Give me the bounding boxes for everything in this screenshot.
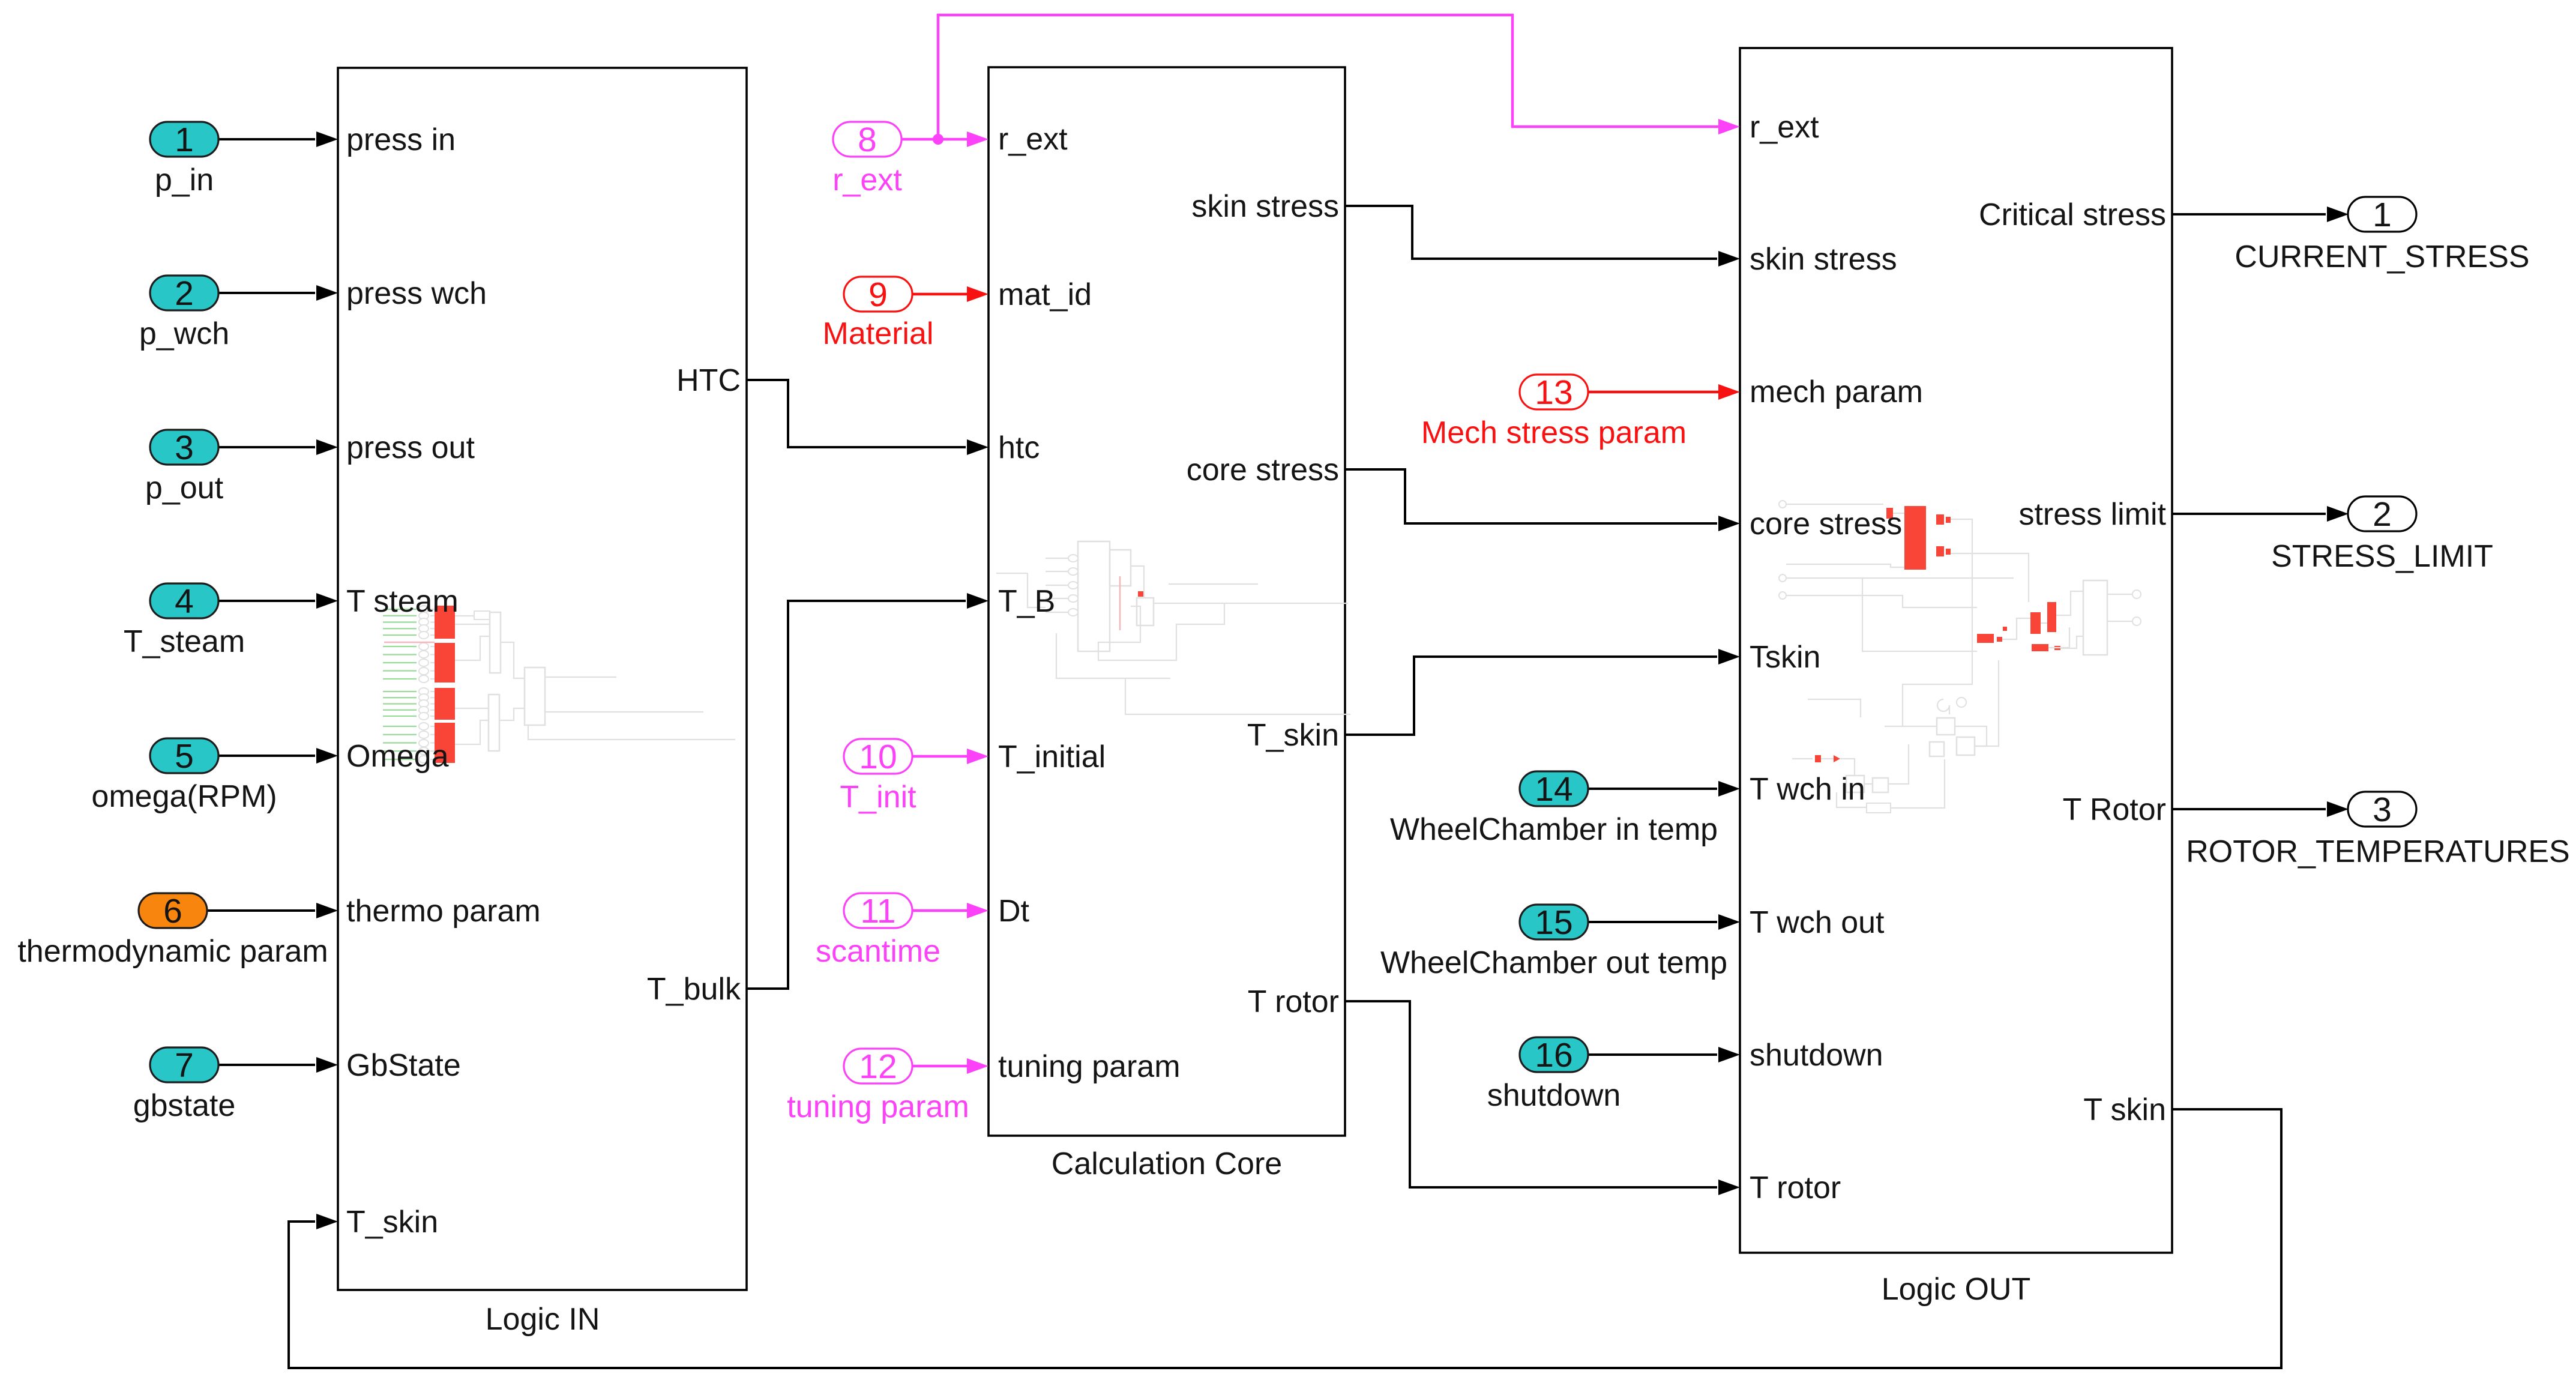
- svg-text:gbstate: gbstate: [133, 1088, 236, 1123]
- svg-text:r_ext: r_ext: [832, 163, 902, 197]
- svg-text:p_in: p_in: [155, 163, 214, 197]
- svg-text:Logic OUT: Logic OUT: [1882, 1272, 2031, 1307]
- svg-text:T_skin: T_skin: [346, 1205, 438, 1240]
- svg-text:T skin: T skin: [2083, 1092, 2166, 1127]
- svg-text:7: 7: [175, 1046, 194, 1085]
- svg-text:T_initial: T_initial: [998, 740, 1106, 774]
- svg-text:13: 13: [1535, 373, 1572, 412]
- svg-text:9: 9: [868, 276, 888, 314]
- svg-text:skin stress: skin stress: [1750, 242, 1897, 277]
- svg-text:4: 4: [175, 582, 194, 621]
- svg-text:stress limit: stress limit: [2018, 497, 2166, 532]
- svg-text:T_bulk: T_bulk: [647, 972, 741, 1007]
- svg-text:Dt: Dt: [998, 894, 1030, 929]
- svg-text:Critical stress: Critical stress: [1979, 197, 2166, 232]
- svg-text:press in: press in: [346, 122, 456, 157]
- svg-text:r_ext: r_ext: [998, 122, 1068, 157]
- svg-text:HTC: HTC: [676, 363, 741, 398]
- svg-text:core stress: core stress: [1187, 453, 1339, 487]
- svg-text:T_skin: T_skin: [1247, 718, 1339, 753]
- svg-text:6: 6: [163, 892, 182, 930]
- svg-text:thermodynamic param: thermodynamic param: [17, 934, 328, 969]
- svg-text:Mech stress param: Mech stress param: [1421, 415, 1687, 450]
- svg-text:14: 14: [1535, 770, 1572, 809]
- svg-text:mech param: mech param: [1750, 375, 1923, 409]
- svg-text:press out: press out: [346, 430, 475, 465]
- svg-text:skin stress: skin stress: [1191, 189, 1339, 224]
- svg-text:Logic IN: Logic IN: [486, 1302, 600, 1337]
- svg-text:Material: Material: [823, 316, 934, 351]
- svg-text:shutdown: shutdown: [1487, 1078, 1621, 1113]
- svg-text:STRESS_LIMIT: STRESS_LIMIT: [2271, 539, 2493, 574]
- svg-text:r_ext: r_ext: [1750, 110, 1819, 145]
- svg-text:T steam: T steam: [346, 584, 459, 619]
- svg-text:T rotor: T rotor: [1248, 984, 1339, 1019]
- svg-text:Calculation Core: Calculation Core: [1052, 1146, 1282, 1181]
- svg-text:T_B: T_B: [998, 584, 1055, 619]
- svg-text:16: 16: [1535, 1036, 1572, 1074]
- svg-text:shutdown: shutdown: [1750, 1038, 1883, 1073]
- svg-text:scantime: scantime: [816, 934, 940, 969]
- svg-text:thermo param: thermo param: [346, 894, 541, 929]
- svg-text:T Rotor: T Rotor: [2063, 792, 2166, 827]
- svg-text:htc: htc: [998, 430, 1040, 465]
- svg-text:3: 3: [2373, 791, 2392, 829]
- svg-text:3: 3: [175, 429, 194, 467]
- svg-text:tuning param: tuning param: [787, 1089, 969, 1124]
- svg-text:ROTOR_TEMPERATURES: ROTOR_TEMPERATURES: [2186, 834, 2570, 869]
- svg-text:mat_id: mat_id: [998, 277, 1092, 312]
- svg-text:2: 2: [175, 274, 194, 313]
- svg-text:WheelChamber in temp: WheelChamber in temp: [1390, 812, 1718, 847]
- svg-text:GbState: GbState: [346, 1048, 461, 1083]
- svg-text:T wch in: T wch in: [1750, 772, 1865, 807]
- svg-text:2: 2: [2373, 495, 2392, 534]
- svg-text:1: 1: [175, 121, 194, 159]
- svg-text:T wch out: T wch out: [1750, 905, 1885, 940]
- svg-text:12: 12: [859, 1047, 897, 1086]
- svg-text:Omega: Omega: [346, 739, 449, 774]
- svg-text:omega(RPM): omega(RPM): [91, 779, 277, 814]
- svg-text:5: 5: [175, 737, 194, 776]
- svg-text:p_wch: p_wch: [139, 316, 229, 351]
- svg-text:Tskin: Tskin: [1750, 640, 1820, 675]
- svg-text:8: 8: [858, 121, 877, 159]
- svg-text:T_steam: T_steam: [124, 624, 245, 659]
- svg-text:core stress: core stress: [1750, 507, 1902, 541]
- svg-text:1: 1: [2373, 196, 2392, 234]
- svg-text:tuning param: tuning param: [998, 1049, 1181, 1084]
- svg-text:T rotor: T rotor: [1750, 1171, 1841, 1205]
- svg-text:press wch: press wch: [346, 276, 487, 311]
- svg-text:p_out: p_out: [145, 471, 224, 505]
- svg-text:WheelChamber out temp: WheelChamber out temp: [1380, 945, 1727, 980]
- svg-text:10: 10: [859, 738, 897, 776]
- svg-text:CURRENT_STRESS: CURRENT_STRESS: [2234, 240, 2529, 274]
- svg-text:15: 15: [1535, 903, 1572, 942]
- svg-text:11: 11: [860, 892, 895, 930]
- svg-text:T_init: T_init: [840, 780, 916, 815]
